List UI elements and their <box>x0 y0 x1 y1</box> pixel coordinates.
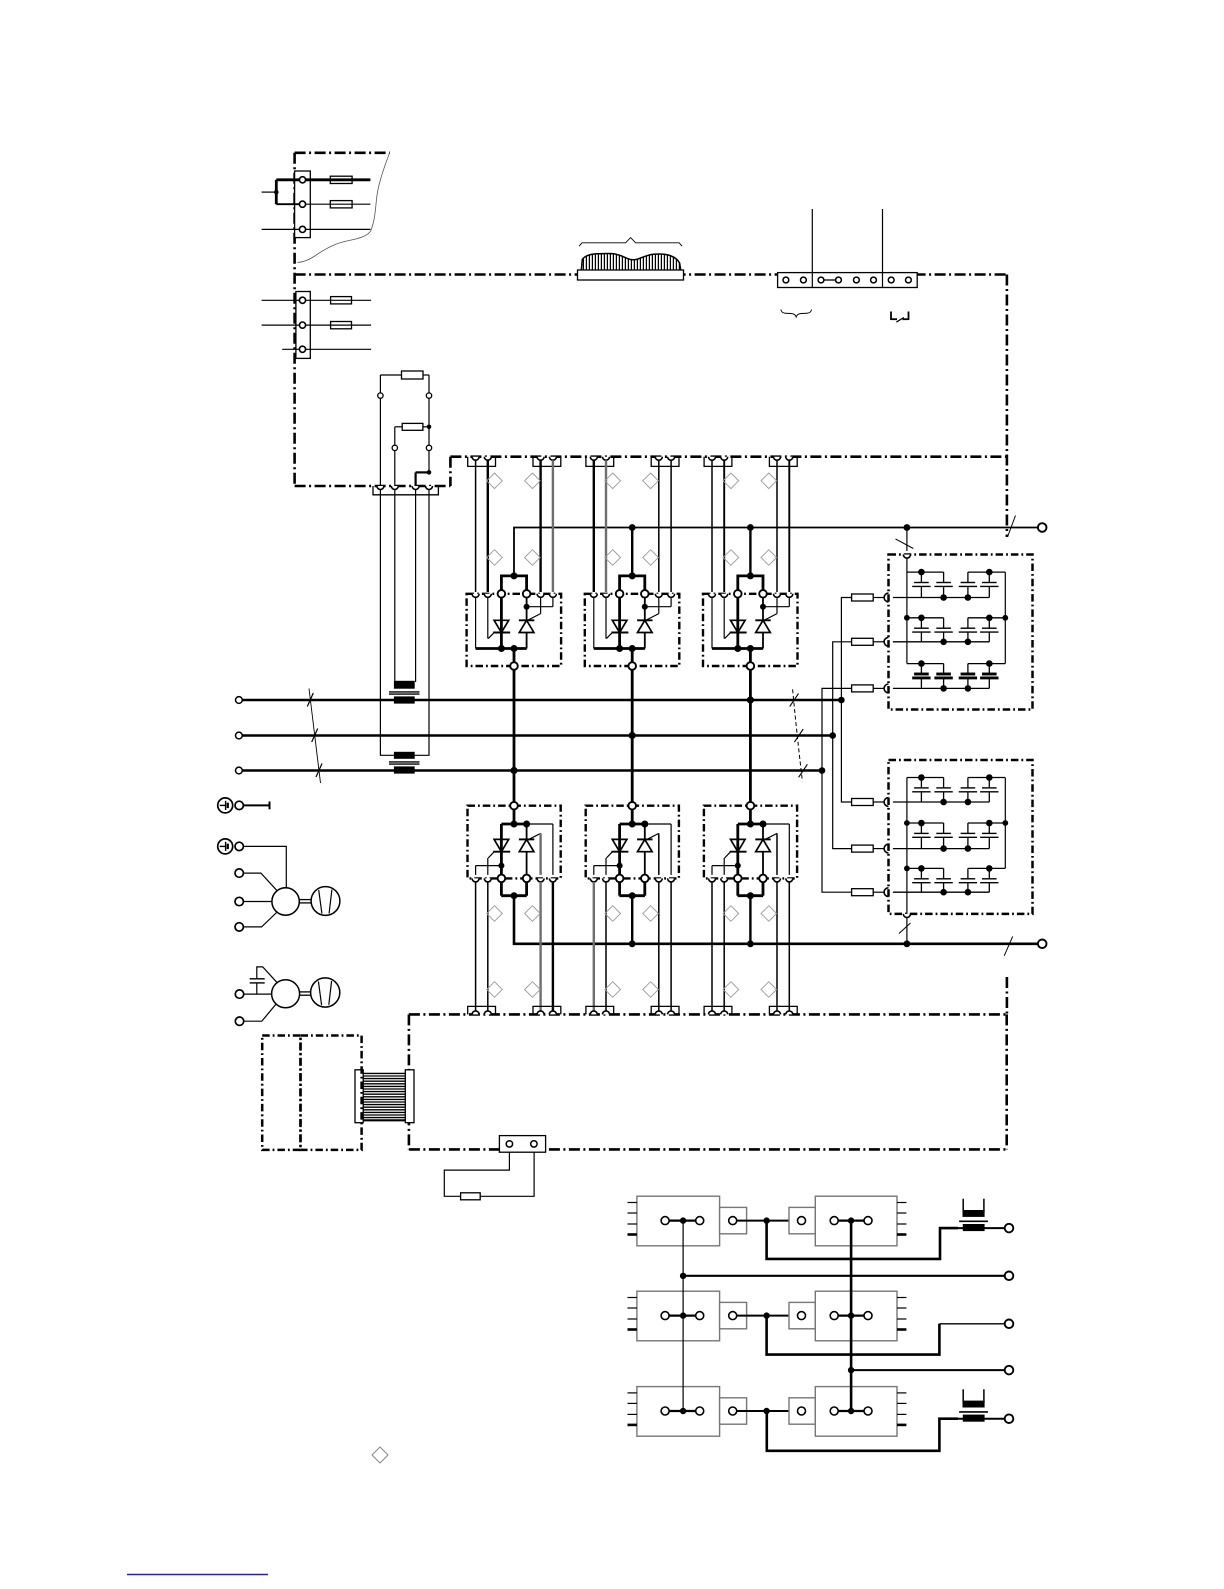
output terminal W4 <box>1005 1366 1014 1375</box>
DC+ bus <box>514 524 1038 576</box>
wire slash DC+ <box>1008 516 1016 537</box>
wire L1 with fuse F1 <box>306 176 371 183</box>
wire CT inner right <box>415 490 417 683</box>
wire cathode bus U3 <box>712 597 763 662</box>
thyristor Q3b <box>755 597 789 648</box>
wire anode bus D2 <box>620 809 649 827</box>
wire R2 left leg <box>392 427 397 486</box>
resistor R3 loop <box>444 1152 534 1200</box>
wire CT left rail <box>380 490 394 756</box>
wire CT inner left <box>394 490 396 683</box>
wire CT right rail <box>415 490 429 756</box>
terminal block TB4 <box>499 1136 545 1153</box>
wire cathode bus U1 <box>476 597 527 662</box>
capacitor bank A2 row3 <box>893 865 1005 895</box>
diode module DM3R <box>789 1387 906 1437</box>
fan motor M2 <box>272 978 340 1008</box>
wire output row2 <box>767 1316 1005 1355</box>
phase line L3 <box>242 769 822 772</box>
output terminal W1 <box>1005 1224 1014 1233</box>
wire stub to connector <box>416 472 429 486</box>
snubber resistor R9 <box>852 888 889 897</box>
phase line L1 <box>242 699 841 702</box>
wire gate upper-right 2 <box>658 460 660 592</box>
connector P2B on boundary <box>651 457 679 467</box>
wire anode-sense upper 3 <box>788 460 790 592</box>
capacitor bank A1 row1 <box>893 569 1005 601</box>
wire right column bus <box>850 1221 853 1411</box>
wire gate lower-left 1 <box>487 882 489 1015</box>
capacitor C1 on fan M2 <box>250 967 277 994</box>
wire L2 to snubber resistors <box>829 642 851 849</box>
connector P3A on boundary <box>704 457 732 467</box>
wire anode bus D1 <box>501 809 530 827</box>
thyristor module U3 (upper) <box>703 590 798 670</box>
wire anode-sense lower 3 <box>788 882 790 1015</box>
wire anode bus D3 <box>738 809 767 827</box>
fan M2 terminals <box>235 990 276 1026</box>
connector P3C on lower boundary <box>704 1006 732 1014</box>
wire to TB2-3 <box>282 348 371 350</box>
snubber resistor R6 <box>852 684 889 693</box>
snubber box A2 <box>889 760 1033 914</box>
wire L3 to snubber resistors <box>819 688 852 892</box>
thyristor Q1a <box>488 597 510 648</box>
output terminal W3 <box>1005 1320 1014 1329</box>
ground symbol PE2 <box>218 839 233 854</box>
wire cathode bus U2 <box>594 597 645 662</box>
wire cathode-sense lower 2 <box>593 882 595 1015</box>
resistor R2 <box>395 423 432 430</box>
wire to TB2-1 with fuse F3 <box>262 297 372 304</box>
DC- bus <box>514 896 1038 947</box>
wire gate lower-right 2 <box>658 882 660 1015</box>
current transformer CT1 <box>389 681 420 704</box>
terminal strip TB2 <box>296 292 310 359</box>
footer rule <box>127 1574 268 1576</box>
resistor R1 <box>380 371 429 379</box>
snubber resistor R8 <box>852 844 889 853</box>
wire link row 1 <box>737 1217 798 1223</box>
wire anode bus 3 <box>738 528 763 591</box>
connector P1A on boundary <box>468 457 496 467</box>
brace over hump <box>579 238 682 247</box>
connector P3B on boundary <box>769 457 797 467</box>
wire left column bus <box>682 1221 684 1411</box>
ground terminal to fan M1 <box>235 842 286 888</box>
connector P2D on lower boundary <box>651 1006 679 1014</box>
wire gate upper-left 1 <box>487 460 489 592</box>
wire R1 right leg <box>426 375 431 427</box>
control board boundary <box>409 1014 1007 1149</box>
phase line L2 <box>242 734 832 737</box>
wire snubber A2 to DC- <box>899 918 911 944</box>
wire R2 right leg <box>426 427 431 475</box>
connector P2A on boundary <box>586 457 614 467</box>
capacitor bank A2 row2 <box>893 820 1005 852</box>
thyristor Q1c <box>476 824 511 875</box>
cable designation slash right <box>790 689 808 781</box>
auxiliary box B2 <box>301 1036 362 1150</box>
auxiliary box B1 <box>262 1036 300 1150</box>
diode module DM1L <box>628 1196 747 1246</box>
cable designation slash <box>307 689 322 784</box>
bus bars A2 <box>903 778 1008 918</box>
wire cathode-sense upper 3 <box>711 460 713 592</box>
wire gate lower-left 3 <box>723 882 725 1015</box>
snubber resistor R5 <box>852 637 889 646</box>
diode module DM2R <box>789 1291 906 1341</box>
wire anode-sense upper 2 <box>670 460 672 592</box>
wire phase drop 2 <box>629 670 636 802</box>
diode module DM3L <box>628 1387 747 1437</box>
wire output row3 with CT4 <box>767 1389 1005 1451</box>
snubber resistor R7 <box>852 798 889 807</box>
connector P2C on lower boundary <box>586 1006 614 1014</box>
output terminal W5 <box>1005 1414 1014 1423</box>
ground symbol PE1 <box>218 798 233 813</box>
wire output bus D3 <box>738 882 764 944</box>
wire phase drop 1 <box>510 670 517 802</box>
wire anode bus 2 <box>620 528 645 591</box>
wire L2 with fuse F2 <box>306 201 371 208</box>
connector P1D on lower boundary <box>533 1006 561 1014</box>
bus bars A1 <box>903 555 1008 664</box>
thyristor Q1d <box>519 824 553 875</box>
wire gate upper-left 3 <box>723 460 725 592</box>
phase terminal X3 <box>236 767 243 774</box>
wire gate lower-right 1 <box>539 882 541 1015</box>
thyristor Q2d <box>637 824 671 875</box>
capacitor bank A2 row1 <box>893 774 1005 805</box>
wire anode bus 1 <box>501 572 526 590</box>
output terminal DC+ <box>1038 523 1047 532</box>
wire output bus D1 <box>501 882 527 899</box>
connector P3D on lower boundary <box>769 1006 797 1014</box>
wire link row 2 <box>737 1312 798 1318</box>
wire slash DC- <box>1004 936 1013 955</box>
output terminal W2 <box>1005 1272 1014 1281</box>
thyristor module D2 (lower) <box>586 802 679 882</box>
wire cathode-sense upper 2 <box>593 460 595 592</box>
wire gate upper-left 2 <box>605 460 607 592</box>
wire anode-sense upper 1 <box>552 460 554 592</box>
key diamonds upper 1 <box>487 473 541 565</box>
key diamonds upper 3 <box>723 473 777 565</box>
jumper mark under TB3 <box>891 312 909 323</box>
thyristor Q2a <box>606 597 628 648</box>
thyristor Q3c <box>712 824 747 875</box>
ground terminal and stub <box>235 801 270 809</box>
connector J1 on board edge <box>373 486 438 495</box>
key diamonds lower 3 <box>723 906 777 998</box>
fan M1 terminals <box>235 869 277 931</box>
capacitor bank A1 row2 <box>893 615 1005 646</box>
thyristor Q2c <box>594 824 629 875</box>
thyristor Q1b <box>519 597 553 648</box>
phase terminal X1 <box>236 697 243 704</box>
wire R1 left leg <box>378 375 383 486</box>
connector P1C on lower boundary <box>468 1006 496 1014</box>
wire gate upper-right 1 <box>539 460 541 592</box>
key diamonds lower 1 <box>487 906 541 998</box>
wire gate upper-right 3 <box>776 460 778 592</box>
power board boundary <box>295 275 1007 1015</box>
wire right bus to terminal W4 <box>848 1367 1005 1373</box>
thyristor module D1 (lower) <box>468 802 561 882</box>
wire cathode-sense upper 1 <box>475 460 477 592</box>
thyristor module D3 (lower) <box>704 802 797 882</box>
wire DC+ to snubber A1 <box>896 528 914 552</box>
wire cathode-sense lower 3 <box>711 882 713 1015</box>
wire anode-sense lower 1 <box>552 882 554 1015</box>
thyristor Q3d <box>755 824 789 875</box>
snubber resistor R4 <box>852 593 889 602</box>
key diamond bottom <box>372 1447 388 1463</box>
output terminal DC- <box>1038 940 1047 949</box>
varistor hump element <box>578 250 684 280</box>
diode module DM1R <box>789 1196 906 1246</box>
connector P1B on boundary <box>533 457 561 467</box>
wire gate lower-left 2 <box>605 882 607 1015</box>
fan motor M1 <box>272 887 340 916</box>
capacitor bank A1 row3 <box>893 660 1005 691</box>
wire anode-sense lower 2 <box>670 882 672 1015</box>
wire cathode-sense lower 1 <box>475 882 477 1015</box>
terminal strip TB3 <box>778 209 918 288</box>
wire gate lower-right 3 <box>776 882 778 1015</box>
snubber box A1 <box>889 555 1033 710</box>
thyristor module U1 (upper) <box>467 590 561 670</box>
wire bus to terminal W2 <box>680 1273 1005 1279</box>
current transformer CT2 <box>389 752 420 774</box>
key diamonds upper 2 <box>605 473 659 565</box>
wire phase drop 3 <box>747 670 754 802</box>
wire L1 to snubber resistors <box>838 598 851 803</box>
wire link row 3 <box>737 1408 798 1414</box>
wire output bus D2 <box>619 882 645 944</box>
diode module DM2L <box>628 1291 747 1341</box>
choke L1 (wound inductor) <box>355 1070 414 1123</box>
wire L3 <box>306 228 371 230</box>
thyristor Q2b <box>637 597 671 648</box>
wire output row1 with CT3 <box>767 1199 1005 1259</box>
phase terminal X2 <box>236 732 243 739</box>
thyristor Q3a <box>724 597 746 648</box>
control enclosure box (torn edge) <box>295 153 390 486</box>
feed wire to TB1 <box>262 180 300 230</box>
brace under TB3 <box>781 310 812 317</box>
key diamonds lower 2 <box>605 906 659 998</box>
thyristor module U2 (upper) <box>585 590 680 670</box>
terminal strip TB1 <box>295 171 311 238</box>
wire to TB2-2 with fuse F4 <box>262 322 372 329</box>
